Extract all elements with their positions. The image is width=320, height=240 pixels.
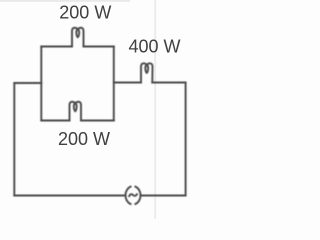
wire: mid-right segment (box right edge to 400W lamp) <box>114 82 141 84</box>
lamp L1 200 W (top branch of parallel pair) <box>72 28 84 47</box>
AC source V1: sine (tilde) mark <box>129 194 137 196</box>
lamp L3 400 W (series lamp) <box>141 63 153 82</box>
wire: outer right vertical <box>185 83 187 196</box>
wire: box top edge right segment <box>84 46 114 48</box>
wire: bottom right segment (AC source to right corner) <box>140 195 185 197</box>
AC source V1: right arc of circle <box>135 187 140 204</box>
wire: bottom left segment (to AC source) <box>14 195 125 197</box>
wire: mid-left feeder (node A to box left edge) <box>14 82 41 84</box>
scan artifact: faint vertical fold line <box>154 0 156 219</box>
wire: parallel box left edge <box>40 47 42 121</box>
svg-text:200 W: 200 W <box>58 129 110 149</box>
wire: outer left vertical <box>13 83 15 196</box>
wire: mid-right segment (400W lamp to right vertical) <box>152 82 185 84</box>
svg-text:400 W: 400 W <box>128 37 180 57</box>
AC source V1: left arc of circle <box>125 187 130 204</box>
svg-text:200 W: 200 W <box>59 3 111 23</box>
wire: box bottom edge left segment <box>41 120 69 122</box>
scan artifact: faint top edge streak <box>0 0 130 2</box>
wire: parallel box right edge <box>113 47 115 121</box>
wire: box top edge left segment <box>41 46 72 48</box>
wire: box bottom edge right segment <box>81 120 114 122</box>
lamp L2 200 W (bottom branch of parallel pair) <box>70 102 82 121</box>
